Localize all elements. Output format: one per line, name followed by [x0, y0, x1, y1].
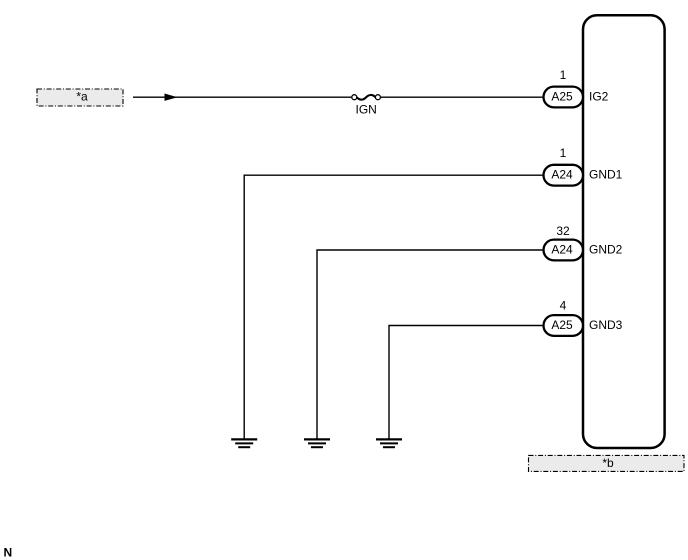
svg-text:A24: A24	[551, 242, 573, 256]
svg-text:4: 4	[560, 299, 567, 313]
svg-text:A25: A25	[551, 89, 573, 103]
svg-text:1: 1	[560, 68, 567, 82]
svg-text:IGN: IGN	[356, 103, 377, 117]
svg-text:32: 32	[556, 224, 570, 238]
svg-text:N: N	[4, 545, 13, 559]
svg-text:IG2: IG2	[589, 89, 609, 103]
svg-text:GND2: GND2	[589, 242, 623, 256]
svg-text:GND1: GND1	[589, 168, 623, 182]
svg-text:1: 1	[560, 146, 567, 160]
svg-text:A24: A24	[551, 168, 573, 182]
svg-text:A25: A25	[551, 318, 573, 332]
svg-text:*b: *b	[602, 456, 614, 470]
svg-text:*a: *a	[76, 90, 88, 104]
svg-text:GND3: GND3	[589, 318, 623, 332]
